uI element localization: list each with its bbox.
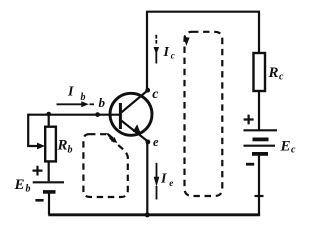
svg-text:c: c xyxy=(291,145,296,156)
svg-text:c: c xyxy=(171,51,175,61)
svg-text:e: e xyxy=(153,135,159,149)
svg-text:c: c xyxy=(152,87,159,102)
svg-text:b: b xyxy=(81,92,86,103)
svg-text:I: I xyxy=(160,172,167,187)
svg-text:E: E xyxy=(280,139,291,155)
svg-text:b: b xyxy=(68,145,73,156)
svg-text:c: c xyxy=(279,72,284,83)
svg-text:b: b xyxy=(99,95,106,110)
svg-text:R: R xyxy=(57,138,68,154)
svg-text:b: b xyxy=(26,184,31,195)
svg-text:R: R xyxy=(268,65,279,81)
svg-text:I: I xyxy=(163,45,170,60)
svg-text:I: I xyxy=(67,85,74,100)
svg-text:e: e xyxy=(169,178,173,188)
svg-text:E: E xyxy=(14,177,25,193)
